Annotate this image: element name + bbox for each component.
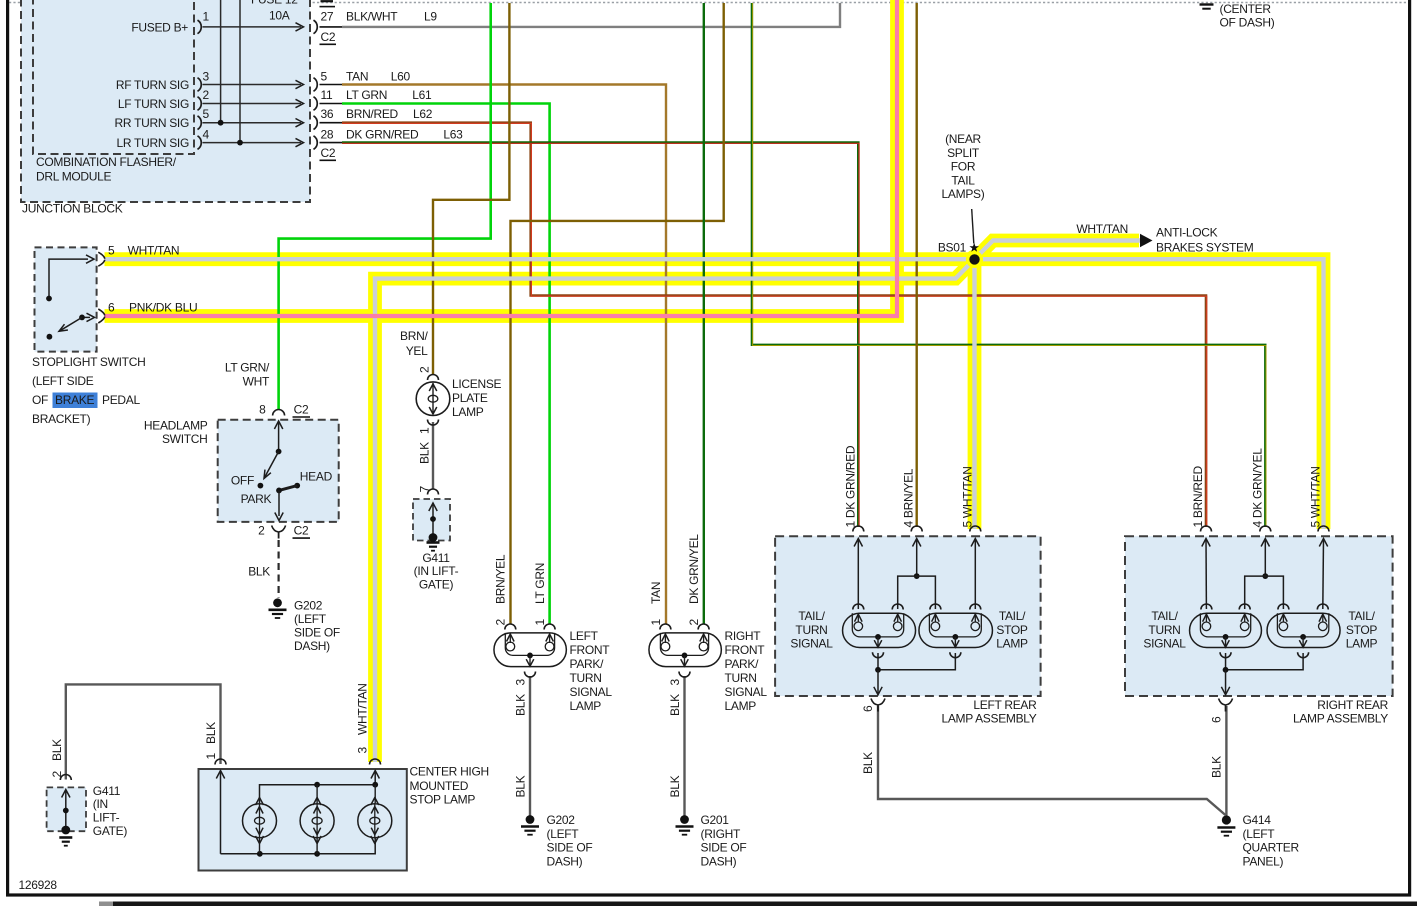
wire BLK center stop lamp to G411 bbox=[66, 684, 221, 779]
svg-text:GATE): GATE) bbox=[93, 824, 128, 838]
wire WHT/TAN main band: stoplight sw to BS01 to right rear pin5 bbox=[105, 259, 1324, 529]
svg-text:27: 27 bbox=[321, 9, 334, 23]
CHMSL bulb at x=317.1 bbox=[300, 804, 334, 838]
svg-text:DK GRN/YEL: DK GRN/YEL bbox=[687, 534, 701, 604]
svg-text:BLK: BLK bbox=[248, 564, 270, 578]
svg-text:(NEAR: (NEAR bbox=[945, 132, 981, 146]
svg-text:FUSED B+: FUSED B+ bbox=[131, 21, 188, 35]
wire WHT/TAN band BS01 to ABS arrow bbox=[975, 241, 1140, 260]
left rear pin5 entry bbox=[970, 526, 981, 609]
svg-text:BLK: BLK bbox=[514, 775, 528, 797]
wire BLK license plate lamp ground bbox=[432, 422, 434, 489]
svg-text:ANTI-LOCK: ANTI-LOCK bbox=[1156, 226, 1218, 240]
connector C2 pin 27 bracket bbox=[314, 20, 318, 34]
svg-text:BS01: BS01 bbox=[938, 241, 967, 255]
pin 27 underline bbox=[320, 26, 343, 28]
G202 ground (headlamp switch) bbox=[269, 598, 287, 618]
cut-off C2 label mark at top bbox=[320, 6, 336, 8]
CHMSL pin3 arc bbox=[370, 759, 381, 765]
svg-text:(LEFT: (LEFT bbox=[1243, 827, 1276, 841]
svg-text:SPLIT: SPLIT bbox=[947, 146, 980, 160]
wire WHT/TAN band BS01 down to left rear pin5 bbox=[968, 259, 982, 529]
svg-text:LAMP: LAMP bbox=[452, 405, 484, 419]
svg-text:G201: G201 bbox=[701, 813, 730, 827]
svg-text:(CENTER: (CENTER bbox=[1220, 2, 1272, 16]
wire PNK/DK BLU band bbox=[105, 0, 898, 316]
svg-text:BLK: BLK bbox=[50, 739, 64, 761]
svg-text:RR TURN SIG: RR TURN SIG bbox=[115, 116, 189, 130]
svg-text:(IN: (IN bbox=[93, 797, 108, 811]
svg-text:BRAKES SYSTEM: BRAKES SYSTEM bbox=[1156, 241, 1254, 255]
svg-text:LF TURN SIG: LF TURN SIG bbox=[118, 97, 189, 111]
svg-text:DASH): DASH) bbox=[294, 639, 330, 653]
svg-text:TAN: TAN bbox=[649, 582, 663, 604]
svg-text:2: 2 bbox=[203, 88, 210, 102]
svg-text:3: 3 bbox=[203, 69, 210, 83]
CHMSL pin1 arc bbox=[215, 759, 226, 765]
fuse 12 internal wire left bbox=[220, 0, 222, 123]
svg-text:LR TURN SIG: LR TURN SIG bbox=[117, 136, 190, 150]
left rear lamp: tail/turn signal bulb bbox=[843, 604, 916, 658]
svg-text:1 BRN/RED: 1 BRN/RED bbox=[1191, 466, 1205, 528]
module pin 4 bracket bbox=[198, 136, 202, 150]
wire TAN L60 from JB pin5 to right front lamp pin1 bbox=[342, 85, 666, 625]
junction block box bbox=[21, 0, 310, 202]
connector C2 pin 36 bracket bbox=[314, 116, 318, 130]
right rear pin4 entry and split bbox=[1245, 526, 1284, 609]
svg-text:(LEFT: (LEFT bbox=[294, 612, 327, 626]
center high mounted stop lamp internals bbox=[215, 759, 392, 857]
svg-text:COMBINATION FLASHER/: COMBINATION FLASHER/ bbox=[36, 155, 177, 169]
wire BRN/YEL to left rear lamp pin4 bbox=[916, 3, 918, 527]
BS01 splice node bbox=[966, 209, 983, 268]
svg-text:2: 2 bbox=[494, 619, 508, 626]
svg-text:2: 2 bbox=[50, 771, 64, 778]
svg-text:DK GRN/RED: DK GRN/RED bbox=[346, 127, 419, 141]
headlamp pin8 arc bbox=[273, 410, 285, 416]
wire BLK/WHT L9 from JB pin27 bbox=[342, 3, 840, 27]
svg-text:YEL: YEL bbox=[406, 344, 428, 358]
svg-text:C2: C2 bbox=[294, 403, 309, 417]
svg-text:BLK: BLK bbox=[418, 442, 432, 464]
svg-text:PNK/DK BLU: PNK/DK BLU bbox=[129, 301, 197, 315]
svg-text:7: 7 bbox=[418, 486, 432, 493]
svg-text:TAIL/: TAIL/ bbox=[798, 609, 825, 623]
svg-text:SIDE OF: SIDE OF bbox=[547, 841, 593, 855]
page bottom border bbox=[6, 893, 1411, 896]
svg-text:BLK: BLK bbox=[668, 775, 682, 797]
svg-text:PANEL): PANEL) bbox=[1243, 854, 1284, 868]
svg-text:LT GRN/: LT GRN/ bbox=[225, 361, 270, 375]
svg-text:OF DASH): OF DASH) bbox=[1220, 16, 1275, 30]
license pin7 arc bbox=[428, 489, 439, 494]
G411 ground box internals (bottom left) bbox=[59, 775, 72, 846]
ground symbol (center of dash) top bbox=[1200, 5, 1214, 9]
svg-text:WHT/TAN: WHT/TAN bbox=[356, 683, 370, 735]
pin 11 underline bbox=[320, 103, 343, 105]
G414 ground bbox=[1217, 815, 1235, 835]
wire LT GRN L61 from JB pin11 to left front lamp pin1 bbox=[342, 104, 550, 625]
svg-text:LAMP: LAMP bbox=[570, 699, 602, 713]
svg-text:C2: C2 bbox=[294, 524, 309, 538]
svg-text:1 DK GRN/RED: 1 DK GRN/RED bbox=[843, 445, 857, 527]
right rear ground bus and pin6 bbox=[1219, 653, 1304, 712]
svg-text:HEAD: HEAD bbox=[300, 470, 333, 484]
svg-text:LAMP ASSEMBLY: LAMP ASSEMBLY bbox=[941, 711, 1036, 725]
svg-text:126928: 126928 bbox=[19, 878, 58, 892]
wire DK GRN/YEL to right rear lamp pin4 bbox=[752, 3, 1265, 527]
bottom window bar black bbox=[113, 902, 1417, 906]
svg-text:DRL MODULE: DRL MODULE bbox=[36, 170, 112, 184]
svg-text:LEFT: LEFT bbox=[570, 629, 599, 643]
fuse 12 internal wire right bbox=[239, 0, 241, 143]
wire WHT/TAN band BS01 to center stop lamp bbox=[375, 259, 975, 762]
CHMSL bulb at x=259.5 bbox=[243, 804, 277, 838]
svg-text:36: 36 bbox=[321, 107, 334, 121]
PNK/DK BLU core bbox=[105, 0, 898, 316]
svg-text:L60: L60 bbox=[391, 69, 411, 83]
svg-text:G414: G414 bbox=[1243, 813, 1272, 827]
svg-text:C2: C2 bbox=[321, 146, 336, 160]
svg-text:FRONT: FRONT bbox=[570, 643, 611, 657]
svg-text:LIFT-: LIFT- bbox=[93, 811, 120, 825]
left rear lamp: tail/stop lamp bulb bbox=[919, 604, 993, 658]
wire BLK left front lamp ground bbox=[529, 676, 531, 816]
svg-text:BRAKE: BRAKE bbox=[55, 393, 94, 407]
svg-text:SIGNAL: SIGNAL bbox=[1143, 637, 1186, 651]
svg-text:BLK: BLK bbox=[204, 722, 218, 744]
svg-text:PLATE: PLATE bbox=[452, 391, 488, 405]
wire BRN/RED L62 from JB pin36 to right rear lamp pin1 bbox=[342, 123, 1206, 527]
svg-text:5: 5 bbox=[321, 69, 328, 83]
wire BLK left rear lamp ground run to G414 bbox=[878, 706, 1225, 815]
ABS arrow bbox=[1140, 234, 1153, 247]
svg-text:C2: C2 bbox=[321, 30, 336, 44]
right rear lamp: tail/stop lamp bulb bbox=[1267, 604, 1340, 658]
svg-text:DASH): DASH) bbox=[701, 854, 737, 868]
svg-text:L9: L9 bbox=[424, 9, 437, 23]
svg-text:TAIL/: TAIL/ bbox=[1151, 609, 1178, 623]
svg-text:6: 6 bbox=[861, 705, 875, 712]
svg-text:MOUNTED: MOUNTED bbox=[410, 779, 469, 793]
svg-text:BRACKET): BRACKET) bbox=[32, 412, 91, 426]
WHT/TAN core ABS branch bbox=[975, 241, 1141, 260]
headlamp switch box bbox=[218, 420, 339, 522]
svg-text:STOPLIGHT SWITCH: STOPLIGHT SWITCH bbox=[32, 355, 145, 369]
svg-text:TAIL: TAIL bbox=[951, 173, 975, 187]
svg-text:1: 1 bbox=[204, 753, 218, 760]
svg-text:TURN: TURN bbox=[795, 623, 827, 637]
CHMSL bulb at x=374.8 bbox=[358, 804, 392, 838]
G411 bottom-left ground box bbox=[47, 787, 86, 831]
svg-text:RF TURN SIG: RF TURN SIG bbox=[116, 78, 189, 92]
svg-text:RIGHT: RIGHT bbox=[725, 629, 762, 643]
G202 ground (left front lamp) bbox=[521, 815, 539, 835]
svg-text:4: 4 bbox=[203, 127, 210, 141]
wire BRN/YEL license plate lamp feed bbox=[433, 3, 509, 375]
wire BLK right rear lamp ground bbox=[1225, 706, 1227, 816]
svg-text:8: 8 bbox=[259, 403, 266, 417]
svg-text:1: 1 bbox=[533, 619, 547, 626]
svg-text:L63: L63 bbox=[443, 127, 463, 141]
svg-text:(LEFT: (LEFT bbox=[547, 827, 580, 841]
svg-text:LAMP: LAMP bbox=[996, 637, 1028, 651]
stoplight pin6 contact arm bbox=[82, 316, 90, 318]
left rear lamp assembly box bbox=[775, 536, 1041, 696]
svg-text:3: 3 bbox=[356, 747, 370, 754]
G201 ground (right front lamp) bbox=[676, 815, 694, 835]
svg-text:4 BRN/YEL: 4 BRN/YEL bbox=[902, 468, 916, 527]
WHT/TAN core center stop lamp branch bbox=[375, 259, 975, 762]
combination flasher/DRL module box bbox=[33, 0, 194, 154]
svg-text:TAIL/: TAIL/ bbox=[999, 609, 1026, 623]
svg-text:WHT/TAN: WHT/TAN bbox=[128, 243, 180, 257]
wire LT GRN/WHT from headlamp switch pin8 up and off top bbox=[279, 3, 491, 409]
svg-text:TURN: TURN bbox=[570, 671, 602, 685]
wire DK GRN/YEL right front lamp pin2 bbox=[703, 3, 705, 624]
svg-text:1: 1 bbox=[418, 427, 432, 434]
left rear pin4 entry and split bbox=[898, 526, 936, 609]
wire DK GRN/RED L63 from JB pin28 to left rear lamp pin1 bbox=[342, 143, 858, 527]
svg-text:CENTER HIGH: CENTER HIGH bbox=[410, 765, 489, 779]
svg-text:TURN: TURN bbox=[725, 671, 757, 685]
svg-text:G411: G411 bbox=[93, 784, 121, 798]
svg-text:LT GRN: LT GRN bbox=[533, 563, 547, 604]
svg-text:FUSE 12: FUSE 12 bbox=[251, 0, 298, 7]
svg-text:LICENSE: LICENSE bbox=[452, 377, 502, 391]
connector C2 pin 5 bracket bbox=[314, 78, 318, 92]
svg-text:PARK: PARK bbox=[241, 492, 272, 506]
svg-text:RIGHT REAR: RIGHT REAR bbox=[1317, 698, 1388, 712]
svg-text:5 WHT/TAN: 5 WHT/TAN bbox=[1309, 466, 1323, 527]
svg-text:1: 1 bbox=[649, 619, 663, 626]
svg-text:BRN/YEL: BRN/YEL bbox=[494, 554, 508, 604]
svg-text:WHT/TAN: WHT/TAN bbox=[1076, 222, 1128, 236]
svg-text:GATE): GATE) bbox=[419, 577, 454, 591]
svg-text:5: 5 bbox=[203, 107, 210, 121]
svg-text:SWITCH: SWITCH bbox=[162, 432, 208, 446]
svg-text:2: 2 bbox=[687, 619, 701, 626]
JB row pin 1 wire bbox=[203, 26, 302, 28]
pin 5 underline bbox=[320, 84, 343, 86]
svg-text:LT GRN: LT GRN bbox=[346, 88, 387, 102]
svg-text:LEFT REAR: LEFT REAR bbox=[973, 698, 1037, 712]
pin 36 underline bbox=[320, 122, 343, 124]
svg-text:BLK: BLK bbox=[514, 694, 528, 716]
headlamp OFF contact bbox=[258, 483, 264, 489]
svg-text:4 DK GRN/YEL: 4 DK GRN/YEL bbox=[1250, 448, 1264, 528]
wire BLK right front lamp ground bbox=[683, 676, 685, 816]
svg-text:HEADLAMP: HEADLAMP bbox=[144, 419, 208, 433]
license plate lamp bbox=[416, 375, 450, 426]
svg-text:LAMPS): LAMPS) bbox=[942, 187, 985, 201]
headlamp wiper from pin8 bbox=[274, 421, 282, 429]
svg-text:3: 3 bbox=[668, 679, 682, 686]
module pin 3 bracket bbox=[198, 78, 202, 92]
BS01 yellow halo bbox=[965, 250, 984, 269]
G411 license ground box bbox=[413, 499, 450, 541]
JB row pin 4 wire bbox=[203, 142, 302, 144]
stoplight pin6 bracket bbox=[98, 309, 105, 316]
svg-text:STOP LAMP: STOP LAMP bbox=[410, 792, 476, 806]
page top dotted border bbox=[9, 2, 1408, 4]
svg-text:JUNCTION BLOCK: JUNCTION BLOCK bbox=[22, 202, 123, 216]
svg-text:TAIL/: TAIL/ bbox=[1348, 609, 1375, 623]
right rear pin5 entry bbox=[1318, 526, 1329, 609]
module pin 1 bracket bbox=[198, 20, 202, 34]
svg-text:FRONT: FRONT bbox=[725, 643, 766, 657]
svg-text:FOR: FOR bbox=[951, 160, 976, 174]
page right border bbox=[1408, 0, 1411, 897]
svg-text:(IN LIFT-: (IN LIFT- bbox=[414, 564, 459, 578]
svg-text:(RIGHT: (RIGHT bbox=[701, 827, 741, 841]
svg-text:BLK: BLK bbox=[861, 752, 875, 774]
stoplight pin5 internal wire bbox=[49, 259, 88, 298]
JB row pin 3 wire bbox=[203, 84, 302, 86]
bottom window bar gray bbox=[99, 902, 113, 906]
wire BLK dashed headlamp switch to G202 bbox=[278, 540, 280, 598]
svg-text:LAMP: LAMP bbox=[725, 699, 757, 713]
module pin 2 bracket bbox=[198, 97, 202, 111]
svg-text:OFF: OFF bbox=[231, 473, 254, 487]
connector C2 pin 28 bracket bbox=[314, 136, 318, 150]
svg-text:BLK: BLK bbox=[1210, 756, 1224, 778]
svg-text:G202: G202 bbox=[547, 813, 576, 827]
G411 ground (license, in lift-gate) bbox=[427, 503, 440, 551]
pin 28 underline bbox=[320, 142, 343, 144]
svg-text:(LEFT SIDE: (LEFT SIDE bbox=[32, 374, 94, 388]
left rear ground bus and pin6 bbox=[871, 653, 955, 712]
svg-text:BLK/WHT: BLK/WHT bbox=[346, 9, 398, 23]
JB row pin 2 wire bbox=[203, 103, 302, 105]
center high mounted stop lamp box bbox=[199, 769, 407, 871]
WHT/TAN core BS01 down bbox=[972, 259, 976, 529]
svg-text:3: 3 bbox=[514, 679, 528, 686]
svg-text:DASH): DASH) bbox=[547, 854, 583, 868]
svg-text:G202: G202 bbox=[294, 599, 323, 613]
right rear pin1 entry bbox=[1201, 526, 1212, 609]
svg-text:SIGNAL: SIGNAL bbox=[725, 685, 768, 699]
module pin 5 bracket bbox=[198, 116, 202, 130]
svg-text:PEDAL: PEDAL bbox=[102, 393, 140, 407]
headlamp HEAD contact bbox=[294, 483, 300, 489]
CHMSL bottom bus bbox=[221, 838, 376, 854]
stoplight pin5 bracket bbox=[98, 252, 105, 259]
svg-text:G411: G411 bbox=[422, 551, 450, 565]
svg-text:10A: 10A bbox=[269, 9, 290, 23]
svg-text:SIDE OF: SIDE OF bbox=[701, 841, 747, 855]
right rear lamp: tail/turn signal bulb bbox=[1190, 604, 1262, 658]
left front park/turn signal lamp bbox=[494, 624, 566, 677]
svg-text:LAMP: LAMP bbox=[1346, 637, 1378, 651]
svg-text:11: 11 bbox=[321, 88, 333, 102]
WHT/TAN core main bbox=[105, 259, 1324, 529]
svg-text:28: 28 bbox=[321, 127, 334, 141]
svg-text:5 WHT/TAN: 5 WHT/TAN bbox=[960, 466, 974, 527]
svg-text:2: 2 bbox=[258, 524, 265, 538]
JB row pin 5 wire bbox=[203, 122, 302, 124]
svg-text:6: 6 bbox=[108, 301, 115, 315]
svg-text:OF: OF bbox=[32, 393, 48, 407]
svg-text:WHT: WHT bbox=[243, 375, 270, 389]
svg-text:STOP: STOP bbox=[996, 623, 1028, 637]
svg-text:BRN/: BRN/ bbox=[400, 329, 428, 343]
svg-text:L61: L61 bbox=[412, 88, 432, 102]
svg-text:5: 5 bbox=[108, 243, 115, 257]
CHMSL top bus bbox=[260, 785, 376, 803]
right rear lamp assembly box bbox=[1125, 536, 1393, 696]
svg-text:6: 6 bbox=[1210, 716, 1224, 723]
headlamp PARK contact arm bbox=[279, 486, 297, 491]
svg-text:1: 1 bbox=[203, 10, 210, 24]
svg-text:QUARTER: QUARTER bbox=[1243, 841, 1300, 855]
svg-text:LAMP ASSEMBLY: LAMP ASSEMBLY bbox=[1293, 711, 1388, 725]
svg-text:BRN/RED: BRN/RED bbox=[346, 107, 399, 121]
page left border bbox=[6, 0, 9, 897]
connector C2 pin 11 bracket bbox=[314, 97, 318, 111]
svg-text:SIGNAL: SIGNAL bbox=[570, 685, 613, 699]
svg-text:STOP: STOP bbox=[1346, 623, 1378, 637]
right front park/turn signal lamp bbox=[649, 624, 721, 677]
svg-text:L62: L62 bbox=[413, 107, 433, 121]
stoplight switch box bbox=[35, 247, 97, 351]
wire BRN/YEL left front lamp pin2 bbox=[511, 3, 724, 624]
svg-text:TURN: TURN bbox=[1148, 623, 1180, 637]
svg-text:SIGNAL: SIGNAL bbox=[790, 637, 833, 651]
svg-text:2: 2 bbox=[418, 366, 432, 373]
svg-text:TAN: TAN bbox=[346, 69, 368, 83]
svg-text:PARK/: PARK/ bbox=[725, 657, 760, 671]
left rear pin1 entry bbox=[853, 526, 864, 609]
svg-text:PARK/: PARK/ bbox=[570, 657, 605, 671]
headlamp pin2 connector bbox=[272, 526, 286, 533]
svg-text:SIDE OF: SIDE OF bbox=[294, 626, 340, 640]
svg-text:BLK: BLK bbox=[668, 694, 682, 716]
